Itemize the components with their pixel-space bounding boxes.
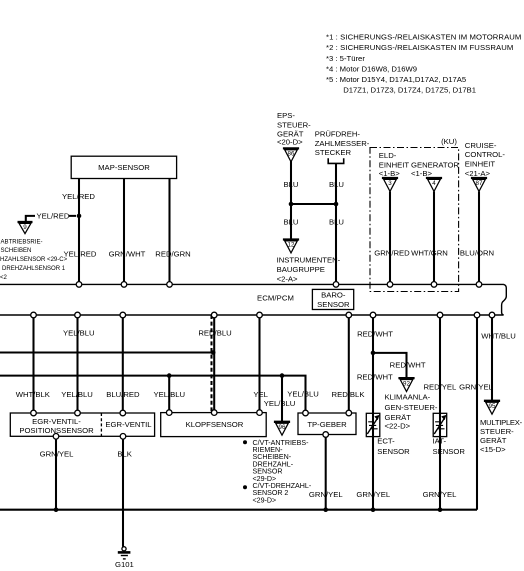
- svg-text:DREHZAHLSENSOR 1: DREHZAHLSENSOR 1: [2, 266, 66, 272]
- svg-text:BLU: BLU: [329, 180, 344, 189]
- bullet CVT speed sensor 2: [243, 485, 247, 489]
- svg-text:INSTRUMENTEN-: INSTRUMENTEN-: [277, 255, 341, 264]
- ground G101: [115, 547, 134, 569]
- svg-text:G101: G101: [115, 560, 134, 569]
- svg-text:D17Z1, D17Z3, D17Z4, D17Z5, D1: D17Z1, D17Z3, D17Z4, D17Z5, D17B1: [343, 86, 476, 95]
- svg-text:RED/WHT: RED/WHT: [357, 373, 393, 382]
- svg-text:YEL/RED: YEL/RED: [64, 250, 97, 259]
- node junction line4 connector96: [280, 373, 285, 378]
- wire YEL/RED branch to connector 9: [26, 216, 76, 222]
- svg-text:GERÄT: GERÄT: [480, 436, 507, 445]
- ECM terminal b492: [489, 312, 495, 318]
- label CVT speed sensor 2: [253, 482, 312, 504]
- ECM/PCM torn right edge: [502, 284, 507, 314]
- node junction line4 klopf: [167, 373, 172, 378]
- TP-GEBER box: [298, 413, 356, 435]
- node junction bridge left: [289, 202, 294, 207]
- svg-text:EGR-VENTIL: EGR-VENTIL: [105, 420, 152, 429]
- wire YEL/BLU line4 to KLOPFSENSOR: [168, 376, 170, 413]
- wire RED/YEL to IAT-SENSOR and GRN/YEL below: [439, 315, 441, 510]
- wire BLK EGR valve to G101: [122, 436, 124, 547]
- svg-text:GRN/YEL: GRN/YEL: [40, 449, 74, 458]
- svg-text:RED/GRN: RED/GRN: [155, 250, 190, 259]
- connector triangle 86 EPS: [283, 148, 299, 161]
- label CVT drive pulley speed sensor: [253, 439, 310, 483]
- KLOPF terminal 3: [257, 410, 263, 416]
- svg-text:<22-D>: <22-D>: [385, 422, 411, 431]
- connector triangle 87 cruise control: [471, 178, 487, 191]
- label multiplex control unit: [480, 418, 523, 454]
- svg-text:WHT/BLU: WHT/BLU: [481, 332, 516, 341]
- svg-text:ABTRIEBSRIE-: ABTRIEBSRIE-: [1, 240, 43, 246]
- ECM terminal b373: [370, 312, 376, 318]
- svg-text:SENSOR: SENSOR: [377, 447, 410, 456]
- ECM terminal b122: [120, 312, 126, 318]
- svg-text:RED/YEL: RED/YEL: [423, 382, 457, 391]
- TP terminal right: [346, 410, 352, 416]
- svg-text:STECKER: STECKER: [315, 148, 352, 157]
- node junction line3 end: [211, 350, 216, 355]
- svg-text:GEN-STEUER-: GEN-STEUER-: [385, 403, 438, 412]
- svg-text:GRN/RED: GRN/RED: [374, 248, 410, 257]
- svg-text:SENSOR: SENSOR: [317, 300, 350, 309]
- svg-text:87: 87: [476, 180, 483, 187]
- svg-text:9: 9: [23, 224, 27, 231]
- svg-text:HZAHLSENSOR <29-C>: HZAHLSENSOR <29-C>: [0, 257, 68, 263]
- label CVT speed sensor left edge: [0, 240, 68, 272]
- svg-text:GRN/YEL: GRN/YEL: [356, 490, 390, 499]
- EGR valve position sensor box: [10, 413, 154, 436]
- svg-text:92: 92: [403, 380, 410, 387]
- svg-text:SCHEIBEN: SCHEIBEN: [1, 248, 32, 254]
- ECM terminal 79: [76, 282, 82, 288]
- svg-text:KLOPFSENSOR: KLOPFSENSOR: [186, 420, 244, 429]
- svg-text:WHT/GRN: WHT/GRN: [411, 248, 448, 257]
- label IAT sensor: [433, 437, 466, 456]
- svg-text:MAP-SENSOR: MAP-SENSOR: [98, 163, 150, 172]
- wire BLU/RED EGR valve: [122, 315, 124, 413]
- svg-text:CONTROL-: CONTROL-: [465, 150, 506, 159]
- svg-text:GRN/YEL: GRN/YEL: [459, 382, 493, 391]
- svg-text:ELD-: ELD-: [379, 151, 397, 160]
- wire MAP-SENSOR pin2 GRN/WHT: [123, 179, 125, 285]
- wire RED/WHT to ECT-SENSOR and GRN/YEL below: [372, 315, 374, 510]
- svg-text:TP-GEBER: TP-GEBER: [307, 420, 347, 429]
- svg-text:86: 86: [288, 151, 295, 158]
- ECM terminal b440: [437, 312, 443, 318]
- wire ELD GRN/RED: [389, 192, 391, 285]
- connector triangle 96 YEL/BLU: [274, 422, 290, 435]
- TP terminal left: [303, 410, 309, 416]
- connector triangle 12 instrument cluster: [283, 240, 299, 253]
- connector triangle 3 ELD: [382, 178, 398, 191]
- wire GRN/YEL TP-GEBER ground: [325, 435, 327, 510]
- label tachometer check connector: [315, 130, 370, 158]
- node junction ground IAT: [438, 507, 443, 512]
- svg-text:BLU/ORN: BLU/ORN: [460, 248, 494, 257]
- svg-text:YEL/BLU: YEL/BLU: [63, 328, 95, 337]
- ECM terminal b477: [474, 312, 480, 318]
- label EPS control unit: [277, 111, 311, 147]
- svg-text:STEUER-: STEUER-: [480, 427, 514, 436]
- wire RED/BLU solid to KLOPFSENSOR: [213, 315, 215, 413]
- svg-text:RED/BLK: RED/BLK: [332, 390, 366, 399]
- node junction ground EGR pos: [54, 507, 59, 512]
- wire MAP-SENSOR pin3 RED/GRN: [168, 179, 170, 285]
- tachometer check connector bracket: [328, 158, 344, 163]
- EGR terminal bottom2: [120, 434, 126, 440]
- ECT-SENSOR thermistor symbol: [366, 413, 380, 436]
- svg-text:<1-B>: <1-B>: [379, 169, 400, 178]
- label ELD unit: [379, 151, 410, 178]
- ECM terminal b214: [211, 312, 217, 318]
- svg-text:<29-D>: <29-D>: [253, 496, 277, 504]
- svg-text:*5 : Motor D15Y4, D17A1,D17A2,: *5 : Motor D15Y4, D17A1,D17A2, D17A5: [326, 75, 466, 84]
- IAT-SENSOR thermistor symbol: [433, 413, 447, 436]
- svg-text:<21-A>: <21-A>: [465, 169, 491, 178]
- label generator: [411, 161, 459, 179]
- ECM terminal 124: [121, 282, 127, 288]
- wire WHT/BLU to multiplex unit: [491, 315, 493, 401]
- ECM terminal b33: [31, 312, 37, 318]
- svg-text:YEL/BLU: YEL/BLU: [264, 399, 296, 408]
- svg-text:96: 96: [279, 424, 286, 431]
- svg-text:WHT/BLK: WHT/BLK: [16, 390, 51, 399]
- svg-text:BLK: BLK: [117, 449, 132, 458]
- node junction ground TP: [323, 507, 328, 512]
- wire bus line4 to TP-GEBER: [0, 376, 306, 413]
- svg-text:*3 : 5-Türer: *3 : 5-Türer: [326, 54, 365, 63]
- svg-text:SENSOR: SENSOR: [433, 447, 466, 456]
- svg-text:EINHEIT: EINHEIT: [465, 160, 496, 169]
- EGR terminal t1: [31, 410, 37, 416]
- svg-text:YEL/BLU: YEL/BLU: [287, 390, 319, 399]
- wire RED/BLK to TP-GEBER: [348, 315, 350, 413]
- svg-text:*1 : SICHERUNGS-/RELAISKASTEN: *1 : SICHERUNGS-/RELAISKASTEN IM MOTORRA…: [326, 33, 521, 42]
- svg-text:GRN/YEL: GRN/YEL: [423, 490, 457, 499]
- svg-text:<1-B>: <1-B>: [411, 169, 432, 178]
- wire EPS BLU vertical: [290, 161, 292, 240]
- svg-text:BLU: BLU: [329, 217, 344, 226]
- svg-text:RED/WHT: RED/WHT: [390, 360, 426, 369]
- svg-text:YEL/BLU: YEL/BLU: [153, 390, 185, 399]
- ECM terminal b77: [75, 312, 81, 318]
- wire GRN/YEL from ECM: [476, 315, 478, 510]
- label ECT sensor: [377, 437, 410, 456]
- EGR terminal t2: [75, 410, 81, 416]
- wire YEL/BLU EGR pos sensor: [76, 315, 78, 413]
- TP terminal bottom: [323, 432, 329, 438]
- EGR terminal bottom1: [53, 434, 59, 440]
- label cruise control unit: [465, 141, 506, 178]
- svg-text:*2 : SICHERUNGS-/RELAISKASTEN: *2 : SICHERUNGS-/RELAISKASTEN IM FUSSRAU…: [326, 43, 513, 52]
- svg-text:KLIMAANLA-: KLIMAANLA-: [385, 393, 431, 402]
- connector triangle 9: [18, 222, 33, 234]
- bullet CVT drive pulley speed sensor: [243, 440, 247, 444]
- EGR terminal t3: [120, 410, 126, 416]
- svg-text:RED/WHT: RED/WHT: [357, 329, 393, 338]
- svg-text:95: 95: [489, 403, 496, 410]
- svg-text:YEL/BLU: YEL/BLU: [61, 390, 93, 399]
- wire YEL/BLU to connector 96: [281, 376, 283, 422]
- svg-text:IAT-: IAT-: [433, 437, 447, 446]
- wire sensor ground bus: [0, 509, 477, 511]
- svg-text:BLU: BLU: [284, 180, 299, 189]
- connector triangle 92 A/C control unit: [398, 378, 414, 391]
- svg-text:BLU: BLU: [284, 217, 299, 226]
- svg-text:BLU/RED: BLU/RED: [106, 390, 140, 399]
- svg-text:<15-D>: <15-D>: [480, 445, 506, 454]
- wire MAP-SENSOR pin1 YEL/RED: [78, 179, 80, 285]
- ECM terminal 479: [476, 282, 482, 288]
- ECM/PCM bottom line: [0, 314, 504, 316]
- node junction YEL/RED branch: [77, 214, 82, 219]
- connector triangle 95 multiplex unit: [484, 401, 500, 414]
- wire CRUISE BLU/ORN: [478, 192, 480, 285]
- svg-text:GRN/WHT: GRN/WHT: [109, 250, 146, 259]
- connector triangle 4 generator: [426, 178, 442, 191]
- ECM/PCM top line: [0, 283, 504, 285]
- svg-text:GRN/YEL: GRN/YEL: [309, 490, 343, 499]
- ECM terminal b349: [346, 312, 352, 318]
- svg-text:MULTIPLEX-: MULTIPLEX-: [480, 418, 523, 427]
- svg-text:STEUER-: STEUER-: [277, 120, 311, 129]
- svg-text:EGR-VENTIL-: EGR-VENTIL-: [32, 417, 81, 426]
- label clipped connector ref left edge: [0, 275, 21, 281]
- ECM terminal 169: [167, 282, 173, 288]
- svg-text:BAUGRUPPE: BAUGRUPPE: [277, 265, 325, 274]
- svg-text:ZAHLMESSER-: ZAHLMESSER-: [315, 139, 370, 148]
- label A/C control unit: [385, 393, 438, 431]
- BARO-SENSOR box: [312, 289, 353, 309]
- svg-text:CRUISE-: CRUISE-: [465, 141, 497, 150]
- svg-text:YEL/RED: YEL/RED: [37, 211, 70, 220]
- svg-text:*4 : Motor D16W8, D16W9: *4 : Motor D16W8, D16W9: [326, 64, 417, 73]
- node junction ground ECT: [371, 507, 376, 512]
- wire BLU bridge EPS to tachometer: [291, 203, 336, 205]
- svg-text:ECM/PCM: ECM/PCM: [257, 294, 294, 303]
- svg-text:PRÜFDREH-: PRÜFDREH-: [315, 130, 361, 139]
- svg-text:<2-A>: <2-A>: [277, 274, 298, 283]
- svg-text:BARO-: BARO-: [321, 291, 346, 300]
- wire YEL to KLOPFSENSOR: [258, 315, 260, 413]
- KLOPF terminal 1: [166, 410, 172, 416]
- svg-text:12: 12: [288, 242, 295, 249]
- wire bus line3: [0, 351, 214, 353]
- ECM terminal 336: [333, 282, 339, 288]
- EGR valve divider dashed: [100, 413, 102, 436]
- ECM terminal b259: [257, 312, 263, 318]
- svg-text:YEL/RED: YEL/RED: [62, 192, 95, 201]
- note block top right: [326, 33, 521, 95]
- ECM terminal 390: [387, 282, 393, 288]
- label instrument cluster: [277, 255, 341, 283]
- KLOPFSENSOR box: [161, 413, 267, 437]
- svg-text:3: 3: [388, 180, 392, 187]
- wire tachometer BLU vertical: [335, 164, 337, 285]
- svg-text:ECT-: ECT-: [377, 437, 395, 446]
- wire RED/BLU dashed variant: [210, 315, 212, 413]
- wire WHT/BLK EGR pos sensor: [32, 315, 34, 413]
- KLOPF terminal 2: [211, 410, 217, 416]
- node junction bridge right: [334, 202, 339, 207]
- wire RED/WHT branch to A/C control: [373, 353, 407, 378]
- node junction RED/WHT branch: [371, 351, 376, 356]
- wire GRN/YEL EGR pos sensor ground: [55, 436, 57, 509]
- svg-text:EPS-: EPS-: [277, 111, 295, 120]
- (KU) dash-dot option box: [370, 148, 459, 292]
- wire GENERATOR WHT/GRN: [433, 192, 435, 285]
- ECM terminal 434: [431, 282, 437, 288]
- svg-text:(KU): (KU): [441, 137, 457, 146]
- svg-text:YEL: YEL: [253, 390, 268, 399]
- svg-text:4: 4: [432, 180, 436, 187]
- svg-text:<20-D>: <20-D>: [277, 138, 303, 147]
- svg-text:RED/BLU: RED/BLU: [198, 328, 231, 337]
- MAP-SENSOR box: [71, 156, 176, 178]
